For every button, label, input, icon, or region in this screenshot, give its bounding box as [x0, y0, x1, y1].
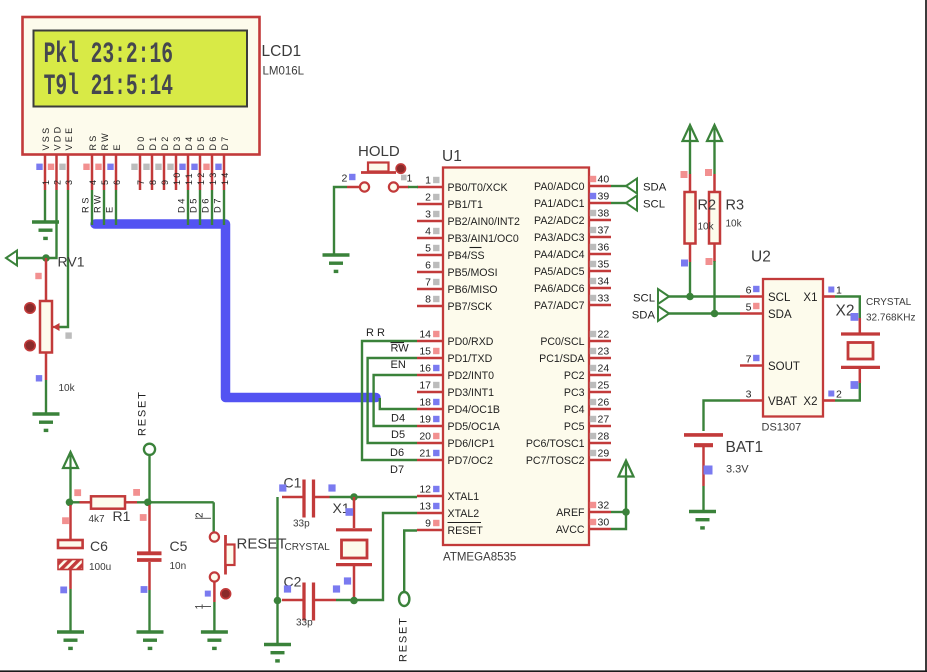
LCD pin 13 D6 stub+label	[203, 134, 218, 190]
svg-text:3.3V: 3.3V	[726, 464, 749, 476]
svg-text:PA7/ADC7: PA7/ADC7	[534, 300, 585, 312]
svg-text:XTAL1: XTAL1	[448, 491, 480, 503]
svg-text:X2: X2	[803, 396, 817, 408]
RV1 square pink	[35, 273, 41, 279]
square near C6	[60, 587, 67, 594]
LCD pin 5 RW stub+label	[95, 131, 110, 190]
net label RW	[391, 343, 410, 355]
svg-text:4: 4	[88, 178, 98, 185]
U1 pin 8 PB7/SCK	[417, 294, 492, 314]
svg-text:PD2/INT0: PD2/INT0	[448, 370, 495, 382]
svg-text:XTAL2: XTAL2	[448, 508, 480, 520]
svg-text:PD0/RXD: PD0/RXD	[448, 336, 494, 348]
U1 pin 13 XTAL2	[417, 501, 479, 521]
svg-text:D2: D2	[160, 134, 170, 150]
node C2 left junction	[274, 597, 282, 605]
svg-text:PC7/TOSC2: PC7/TOSC2	[526, 455, 585, 467]
svg-text:RV1: RV1	[58, 254, 85, 270]
U1 pin 26 PC4	[564, 397, 611, 417]
svg-text:LCD1: LCD1	[262, 43, 302, 60]
node VDD/RV1 junction	[42, 254, 50, 262]
U1 pin 23 PC1/SDA	[539, 346, 611, 366]
svg-text:PC3: PC3	[564, 387, 585, 399]
svg-text:18: 18	[419, 397, 431, 409]
svg-text:C5: C5	[170, 538, 188, 554]
svg-text:24: 24	[598, 363, 610, 375]
ground (RESET button)	[201, 632, 228, 648]
svg-text:PA6/ADC6: PA6/ADC6	[534, 283, 585, 295]
ground (RV1)	[33, 414, 60, 430]
wire U2.VBAT to BAT1	[704, 401, 741, 432]
wire to RESET button	[212, 502, 214, 532]
wire AREF/AVCC	[611, 476, 626, 530]
HOLD actuator dot	[396, 164, 405, 173]
svg-text:RW: RW	[391, 343, 410, 355]
svg-text:SDA: SDA	[632, 310, 656, 322]
U1 pin 9 RESET	[417, 518, 483, 538]
RESET button square	[205, 591, 211, 597]
svg-text:PC5: PC5	[564, 421, 585, 433]
svg-text:PA0/ADC0: PA0/ADC0	[534, 181, 585, 193]
svg-text:E: E	[112, 142, 122, 150]
wire PD2 (EN)	[374, 375, 417, 426]
wire PA0 to SDA terminal	[611, 185, 626, 187]
wire VDD down	[17, 190, 57, 258]
svg-text:PA4/ADC4: PA4/ADC4	[534, 249, 585, 261]
U1 pin 24 PC2	[564, 363, 611, 383]
svg-text:2: 2	[425, 192, 431, 204]
svg-text:PC4: PC4	[564, 404, 585, 416]
svg-text:D6: D6	[201, 196, 211, 213]
HOLD pin2 square	[349, 174, 355, 180]
wire XTAL1	[354, 496, 417, 498]
wire RV1 to ground	[45, 380, 47, 413]
svg-text:28: 28	[598, 431, 610, 443]
resistor R2	[685, 174, 696, 262]
svg-text:PC0/SCL: PC0/SCL	[540, 336, 584, 348]
wire HOLD left to ground	[334, 187, 347, 254]
U1 pin 12 XTAL1	[417, 484, 479, 504]
svg-text:SCL: SCL	[768, 292, 791, 304]
svg-text:33: 33	[598, 293, 610, 305]
svg-text:13: 13	[208, 170, 218, 185]
R3 bottom square	[706, 258, 713, 265]
resistor R1	[80, 496, 138, 508]
svg-text:39: 39	[598, 191, 610, 203]
svg-text:D4: D4	[391, 413, 405, 425]
RV1 top lead	[45, 258, 48, 301]
svg-text:PB7/SCK: PB7/SCK	[448, 301, 493, 313]
svg-text:BAT1: BAT1	[726, 439, 764, 456]
squares near X1 circuit	[279, 484, 353, 592]
svg-text:PA3/ADC3: PA3/ADC3	[534, 232, 585, 244]
svg-text:D4: D4	[177, 196, 187, 213]
svg-text:7: 7	[136, 178, 146, 185]
RESET button pin2 (rotated)	[195, 512, 212, 518]
rtc U2 chip body	[763, 279, 823, 417]
svg-text:U1: U1	[442, 148, 462, 165]
svg-text:1: 1	[836, 285, 842, 297]
wire RESET terminal down	[148, 455, 150, 502]
wire SDA rail	[669, 312, 740, 314]
U1 pin 33 PA7/ADC7	[534, 293, 611, 313]
wire LCD x224 to bus	[223, 190, 225, 225]
svg-text:15: 15	[419, 346, 431, 358]
LCD pin 11 D4 stub+label	[179, 134, 194, 190]
U1 pin 35 PA5/ADC5	[534, 259, 611, 279]
RV1 body	[40, 301, 52, 353]
LCD LCD1 body	[23, 17, 260, 155]
node SDA/R3 junction	[711, 310, 719, 318]
svg-text:11: 11	[184, 171, 194, 185]
svg-text:2: 2	[195, 512, 206, 518]
pushbutton RESET	[210, 532, 235, 602]
U1 pin 30 AVCC	[556, 517, 611, 537]
resistor R3	[709, 174, 720, 262]
svg-text:RS: RS	[81, 195, 91, 213]
svg-text:PC6/TOSC1: PC6/TOSC1	[526, 438, 585, 450]
svg-text:PB4/SS: PB4/SS	[448, 250, 485, 262]
U1 pin 5 PB4/SS	[417, 243, 485, 263]
svg-text:32.768KHz: 32.768KHz	[866, 313, 915, 324]
svg-text:C6: C6	[90, 538, 108, 554]
squares near R1	[62, 489, 147, 524]
svg-text:RESET: RESET	[237, 536, 287, 553]
U1 pin 22 PC0/SCL	[540, 329, 611, 349]
svg-text:35: 35	[598, 259, 610, 271]
wire pwr to R3	[713, 141, 715, 174]
power arrow (R3)	[707, 125, 722, 141]
svg-text:AVCC: AVCC	[556, 524, 585, 536]
svg-text:ATMEGA8535: ATMEGA8535	[443, 552, 516, 564]
ground (C5)	[137, 632, 164, 648]
wire RESET to U1 pin9	[404, 531, 417, 593]
svg-text:40: 40	[598, 174, 610, 186]
crystal X2	[841, 318, 880, 383]
svg-text:D7: D7	[220, 134, 230, 150]
node R1 left junction	[66, 499, 74, 507]
svg-text:13: 13	[419, 501, 431, 513]
svg-text:CRYSTAL: CRYSTAL	[285, 542, 331, 553]
svg-text:PC1/SDA: PC1/SDA	[539, 353, 585, 365]
svg-text:D3: D3	[172, 134, 182, 150]
U1 pin 21 PD7/OC2	[417, 448, 493, 468]
wire LCD x200 to bus	[199, 190, 201, 225]
svg-text:10n: 10n	[170, 561, 187, 572]
RV1 square blue	[36, 375, 42, 381]
squares near X2	[851, 313, 859, 389]
svg-text:PA1/ADC1: PA1/ADC1	[534, 198, 585, 210]
wire RESET button to ground	[213, 602, 215, 631]
svg-text:17: 17	[419, 380, 431, 392]
svg-text:RESET: RESET	[137, 390, 149, 436]
LCD pin 3 VEE stub+label	[59, 126, 74, 190]
wire LCD x188 to bus	[187, 190, 189, 225]
wire R1 to C5/RESET	[137, 501, 214, 503]
svg-text:HOLD: HOLD	[358, 143, 400, 160]
svg-text:26: 26	[598, 397, 610, 409]
svg-text:1: 1	[407, 173, 413, 185]
svg-text:EN: EN	[391, 359, 406, 371]
LCD pin 10 D3 stub+label	[167, 134, 182, 190]
node SCL/R2 junction	[686, 293, 694, 301]
svg-text:1: 1	[425, 175, 431, 187]
R2 bottom square	[681, 260, 688, 267]
svg-text:10k: 10k	[59, 383, 76, 394]
LCD pin 8 D1 stub+label	[143, 134, 158, 190]
terminal RESET (R1 side)	[144, 444, 155, 455]
wire AREF	[611, 511, 626, 513]
HOLD button	[347, 163, 409, 192]
svg-text:2: 2	[342, 173, 348, 185]
svg-text:33p: 33p	[293, 519, 310, 530]
svg-text:RW: RW	[93, 193, 103, 213]
R3 top square	[705, 169, 712, 176]
wire VEE to RV1 wiper	[59, 190, 68, 327]
wire PD4 (D4)	[380, 398, 417, 409]
svg-text:PD3/INT1: PD3/INT1	[448, 387, 495, 399]
svg-text:12: 12	[419, 484, 431, 496]
U1 pin 27 PC5	[564, 414, 611, 434]
U1 pin 4 PB3/AIN1/OC0	[417, 226, 519, 246]
U1 pin 14 PD0/RXD	[417, 329, 494, 349]
U1 pin 38 PA2/ADC2	[534, 208, 611, 228]
U1 pin 6 PB5/MOSI	[417, 260, 498, 280]
svg-text:7: 7	[746, 354, 752, 366]
node C1/X1 junction	[350, 493, 358, 501]
svg-text:R2: R2	[698, 198, 717, 214]
svg-text:LM016L: LM016L	[263, 66, 305, 78]
ground (X1 caps)	[264, 645, 291, 661]
terminal arrow (VDD/RV1)	[6, 251, 17, 266]
svg-text:PB3/AIN1/OC0: PB3/AIN1/OC0	[448, 233, 519, 245]
U2 pin 2 X2	[803, 389, 842, 409]
LCD pin 7 D0 stub+label	[131, 134, 146, 190]
RV1 adjust button down	[25, 340, 35, 350]
wire R2 to SCL	[689, 262, 691, 297]
svg-text:R R: R R	[366, 327, 385, 339]
svg-text:2: 2	[836, 389, 842, 401]
wire X2 to U2.X2	[835, 383, 860, 401]
svg-text:PD7/OC2: PD7/OC2	[448, 455, 493, 467]
svg-text:D6: D6	[390, 447, 404, 459]
wire HOLD to U1 pin1	[408, 186, 418, 188]
svg-text:PB0/T0/XCK: PB0/T0/XCK	[448, 182, 508, 194]
svg-text:SDA: SDA	[768, 309, 792, 321]
svg-text:3: 3	[746, 389, 752, 401]
svg-text:20: 20	[419, 431, 431, 443]
ground (HOLD)	[323, 255, 350, 271]
capacitor C5	[137, 505, 162, 590]
RV1 adjust button up	[25, 303, 35, 313]
svg-text:32: 32	[598, 500, 610, 512]
svg-text:SDA: SDA	[643, 182, 667, 194]
U1 pin 29 PC7/TOSC2	[526, 448, 611, 468]
LCD pin 6 E stub+label	[107, 142, 122, 190]
U1 pin 32 AREF	[556, 500, 611, 520]
RV1 bottom lead	[45, 353, 48, 381]
svg-text:PD4/OC1B: PD4/OC1B	[448, 404, 500, 416]
svg-text:R3: R3	[726, 198, 745, 214]
svg-text:AREF: AREF	[556, 507, 585, 519]
svg-text:RW: RW	[100, 131, 110, 150]
wire PA1 to SCL terminal	[611, 202, 626, 204]
U1 pin 17 PD3/INT1	[417, 380, 494, 400]
power arrow (AVCC)	[619, 461, 634, 477]
svg-text:SCL: SCL	[633, 293, 655, 305]
wire left vertical (C1-C2)	[276, 497, 278, 644]
svg-text:10k: 10k	[726, 219, 743, 230]
svg-text:6: 6	[746, 285, 752, 297]
svg-text:9: 9	[425, 518, 431, 530]
svg-text:PB2/AIN0/INT2: PB2/AIN0/INT2	[448, 216, 521, 228]
wire PD0 (RR)	[362, 341, 417, 460]
node AREF junction	[622, 508, 630, 516]
svg-text:8: 8	[148, 178, 158, 185]
svg-text:D5: D5	[189, 196, 199, 213]
svg-text:PB5/MOSI: PB5/MOSI	[448, 267, 498, 279]
square near C5	[141, 586, 148, 593]
svg-text:14: 14	[220, 170, 230, 185]
svg-text:VDD: VDD	[53, 125, 63, 151]
svg-text:8: 8	[425, 294, 431, 306]
svg-text:D0: D0	[136, 134, 146, 150]
svg-text:3: 3	[64, 178, 74, 185]
bus (LCD to U1 port D)	[95, 224, 376, 398]
svg-text:36: 36	[598, 242, 610, 254]
svg-text:14: 14	[419, 329, 431, 341]
svg-text:7: 7	[425, 277, 431, 289]
U1 pin 37 PA3/ADC3	[534, 225, 611, 245]
node C2/X1 junction	[350, 597, 358, 605]
svg-text:2: 2	[53, 178, 63, 185]
svg-text:DS1307: DS1307	[762, 422, 802, 434]
svg-text:E: E	[105, 204, 115, 213]
svg-text:12: 12	[196, 170, 206, 185]
wire VSS to ground	[44, 190, 46, 221]
LCD pin 2 VDD stub+label	[48, 125, 63, 190]
svg-text:RS: RS	[88, 133, 98, 150]
svg-text:16: 16	[419, 363, 431, 375]
svg-text:RESET: RESET	[398, 616, 410, 662]
crystal X1	[336, 497, 372, 600]
U1 pin 1 PB0/T0/XCK	[417, 175, 508, 195]
svg-text:VBAT: VBAT	[768, 396, 797, 408]
U1 pin 15 PD1/TXD	[417, 346, 493, 366]
U1 pin 40 PA0/ADC0	[534, 174, 611, 194]
U1 pin 7 PB6/MISO	[417, 277, 498, 297]
svg-text:6: 6	[425, 260, 431, 272]
svg-text:29: 29	[598, 448, 610, 460]
svg-text:D7: D7	[390, 464, 404, 476]
U2 pin 6 SCL	[740, 285, 791, 305]
power arrow (R1)	[63, 452, 78, 468]
wire pwr to R1/C6	[69, 467, 71, 506]
svg-text:VEE: VEE	[64, 126, 74, 151]
LCD pin 1 VSS stub+label	[36, 126, 51, 190]
wire XTAL2	[354, 513, 417, 600]
LCD pin 12 D5 stub+label	[191, 134, 206, 190]
svg-text:D5: D5	[391, 429, 405, 441]
svg-text:CRYSTAL: CRYSTAL	[866, 297, 912, 308]
wire LCD x104 to bus	[103, 190, 105, 225]
svg-text:10k: 10k	[698, 222, 715, 233]
U1 pin 16 PD2/INT0	[417, 363, 494, 383]
svg-text:D7: D7	[213, 196, 223, 213]
svg-text:D1: D1	[148, 134, 158, 150]
battery BAT1	[684, 435, 723, 486]
BAT1 square	[704, 466, 713, 475]
svg-text:5: 5	[746, 302, 752, 314]
svg-text:PD5/OC1A: PD5/OC1A	[448, 421, 501, 433]
RESET button pin1 (rotated)	[195, 604, 212, 610]
wire SCL rail	[669, 295, 740, 297]
LCD pin 4 RS stub+label	[83, 133, 98, 190]
svg-text:PD1/TXD: PD1/TXD	[448, 353, 493, 365]
svg-text:22: 22	[598, 329, 610, 341]
wire PD1 (RW)	[368, 358, 417, 443]
U2 pin 7 SOUT	[740, 354, 800, 374]
svg-text:37: 37	[598, 225, 610, 237]
op U1 chip body	[443, 168, 589, 546]
wire BAT1 to ground	[702, 486, 704, 510]
terminal SCL (U1)	[626, 196, 637, 211]
RESET actuator dot	[221, 589, 231, 599]
ground (LCD VSS)	[32, 222, 59, 238]
svg-text:D5: D5	[196, 134, 206, 150]
svg-text:21: 21	[419, 448, 431, 460]
capacitor C2	[282, 583, 354, 621]
HOLD pin1 square	[401, 175, 407, 181]
svg-text:19: 19	[419, 414, 431, 426]
U1 pin 19 PD5/OC1A	[417, 414, 501, 434]
U1 pin 34 PA6/ADC6	[534, 276, 611, 296]
terminal SDA (U2 side)	[658, 306, 669, 321]
U1 pin 25 PC3	[564, 380, 611, 400]
U1 pin 2 PB1/T1	[417, 192, 483, 212]
wire C5 to ground	[148, 590, 150, 631]
terminal SDA (U1)	[626, 179, 637, 194]
U1 pin 28 PC6/TOSC1	[526, 431, 611, 451]
svg-text:30: 30	[598, 517, 610, 529]
svg-text:U2: U2	[751, 249, 771, 266]
svg-text:PA5/ADC5: PA5/ADC5	[534, 266, 585, 278]
U1 pin 18 PD4/OC1B	[417, 397, 500, 417]
svg-text:25: 25	[598, 380, 610, 392]
svg-text:X1: X1	[803, 292, 817, 304]
wire R3 to SDA	[713, 261, 715, 314]
ground (C6)	[57, 632, 84, 648]
svg-text:5: 5	[100, 178, 110, 185]
wire LCD x116 to bus	[115, 190, 117, 225]
svg-text:R1: R1	[113, 508, 131, 524]
svg-text:34: 34	[598, 276, 610, 288]
svg-text:D6: D6	[208, 134, 218, 150]
svg-text:4: 4	[425, 226, 431, 238]
svg-text:VSS: VSS	[41, 126, 51, 151]
capacitor C1	[282, 480, 354, 518]
svg-text:PC2: PC2	[564, 370, 585, 382]
terminal SCL (U2 side)	[658, 289, 669, 304]
U2 pin 1 X1	[803, 285, 842, 305]
wire U2.X1 to X2	[835, 297, 860, 319]
svg-text:10: 10	[172, 170, 182, 185]
svg-text:T9l 21:5:14: T9l 21:5:14	[44, 69, 173, 103]
capacitor C6	[58, 505, 83, 589]
svg-text:6: 6	[112, 178, 122, 185]
wire LCD x92 to bus	[91, 190, 93, 225]
svg-text:1: 1	[41, 178, 51, 185]
